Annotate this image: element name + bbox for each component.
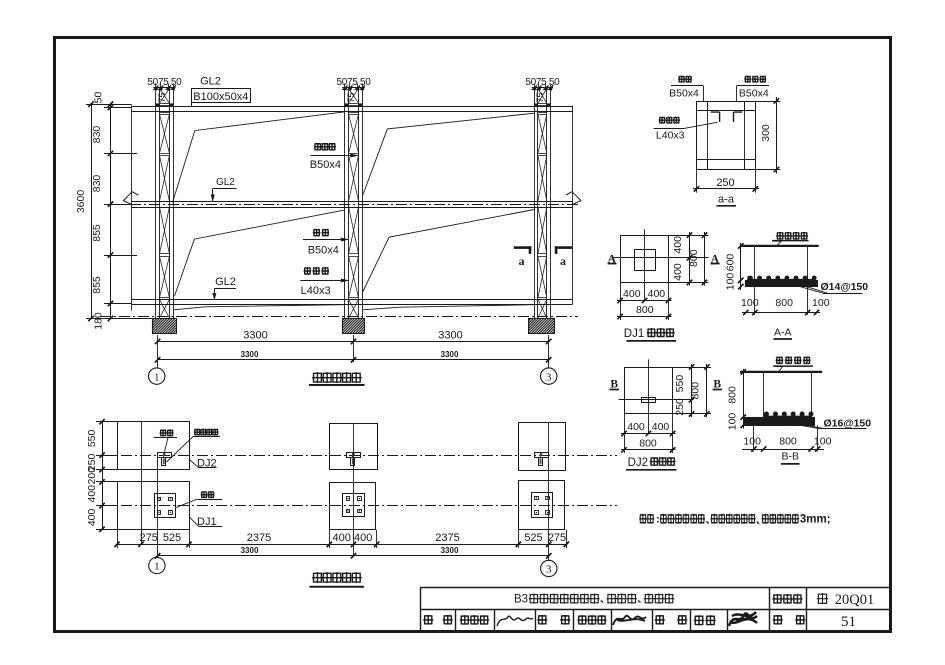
plan bottom dim row2 3300/3300	[158, 555, 549, 557]
middle rail centerline dash-dot	[111, 204, 578, 206]
title block shen he (review)	[423, 615, 433, 625]
elevation dim row2 3300 + 3300	[158, 359, 549, 361]
svg-text:75: 75	[157, 92, 167, 102]
diagonal brace panel bay1 lower	[175, 210, 345, 296]
title: structure plan (jiegou pingmiantu)	[312, 572, 323, 583]
svg-text:3300: 3300	[241, 546, 259, 555]
foundation block column 1 hatched	[153, 319, 177, 334]
A-A rebar label 14@150	[800, 287, 823, 294]
support bracket symbol at x=541.2	[535, 453, 549, 458]
column 3 connection plates at top rail	[534, 103, 538, 106]
A-A ground level label (dimian biaogao)	[776, 232, 784, 240]
DJ2 detail center lines	[648, 359, 650, 433]
svg-text:2375: 2375	[435, 532, 459, 544]
a-a label zhifugan B50x4	[744, 76, 751, 83]
B-B left dim 800/100	[743, 369, 745, 429]
B-B ground level label	[776, 357, 784, 365]
svg-text:B-B: B-B	[782, 451, 800, 463]
title block signature 3 stamp-like	[729, 612, 757, 626]
plan DJ2 footing square 3	[519, 423, 566, 471]
grid bubble 1 plan	[149, 557, 165, 573]
title block atlas number value yu 20Q01	[817, 593, 829, 604]
a-a chord corner squares	[697, 102, 708, 111]
svg-text:180: 180	[92, 312, 104, 330]
title block verticals row2	[455, 610, 457, 632]
svg-text:400: 400	[86, 485, 98, 503]
svg-text::: :	[656, 514, 660, 526]
foundation block column 3 hatched	[529, 319, 555, 334]
svg-text:100: 100	[725, 273, 737, 291]
svg-text:100: 100	[743, 436, 761, 448]
plan label zhujiao (column base)	[201, 491, 208, 498]
svg-text:800: 800	[688, 249, 700, 267]
svg-text:800: 800	[775, 297, 793, 309]
a-a label xiefugan L40x3	[659, 117, 666, 124]
DJ1 right dim 400/400	[668, 235, 708, 237]
svg-text:A-A: A-A	[774, 327, 792, 339]
svg-text:800: 800	[636, 304, 654, 316]
column base plate at x=531.5	[532, 493, 553, 518]
title block ye ci (page)	[773, 615, 783, 625]
diagonal brace panel bay2 upper	[362, 113, 534, 196]
DJ2 right dim 800	[706, 364, 708, 417]
title block tujihao (atlas number)	[772, 594, 782, 604]
A-A ground level triangle	[773, 241, 781, 245]
column base plate at x=154.0	[155, 494, 176, 518]
title block jiao dui (check)	[537, 615, 547, 625]
title block checker name zhang chaoyun	[577, 615, 587, 625]
A-A footing slab with rebar	[746, 281, 818, 287]
svg-text:250: 250	[716, 177, 734, 189]
svg-text:855: 855	[91, 276, 103, 294]
svg-text:100: 100	[741, 297, 759, 309]
plan vertical line square2 axis	[353, 424, 355, 557]
lattice steel column 1 B50x4 chords	[155, 89, 157, 319]
svg-text:GL2: GL2	[200, 76, 221, 88]
DJ1 right dim 800	[704, 232, 706, 286]
plan dash-dot axis through supports row	[102, 455, 617, 457]
column 2 top dim 50/75/50 ticks	[342, 87, 364, 89]
bottom strip line bay1	[174, 305, 345, 310]
column 2 connection plates at top rail	[345, 103, 349, 106]
svg-text:100: 100	[812, 297, 830, 309]
B-B footing slab with rebar	[744, 418, 815, 426]
B-B rebar label 16@150	[801, 425, 820, 428]
svg-text:525: 525	[524, 532, 542, 544]
B-B ground line	[740, 371, 822, 373]
svg-text:400: 400	[627, 421, 645, 433]
title block she ji (design)	[655, 615, 665, 625]
support bracket symbol at x=164.4	[158, 453, 172, 458]
a-a dim 250 bottom	[696, 170, 698, 193]
svg-text:550: 550	[674, 375, 686, 393]
diagonal brace panel bay2 lower	[362, 210, 534, 294]
A-A buried post lines	[754, 246, 756, 280]
right edge line of wall rails	[572, 106, 574, 305]
column 3 X lattice bracing	[538, 89, 547, 319]
DJ2 detail support plate rect	[642, 398, 656, 403]
column 3 battens	[538, 103, 547, 105]
svg-text:75: 75	[535, 92, 545, 102]
a-a diagonal web angles L40x3	[711, 112, 720, 122]
svg-text:20Q01: 20Q01	[835, 592, 874, 608]
svg-text:600: 600	[725, 254, 737, 272]
svg-text:B3: B3	[514, 594, 528, 606]
svg-text:830: 830	[91, 126, 103, 144]
DJ2 detail outer square	[625, 368, 673, 414]
label gangzhu B50x4 (steel column)	[313, 229, 321, 237]
svg-text:3mm;: 3mm;	[800, 514, 831, 526]
title block frame	[420, 588, 422, 632]
plan DJ1 footing square 3	[519, 481, 565, 530]
top rail GL2 B100x50x4	[132, 106, 573, 108]
svg-text:250: 250	[674, 398, 686, 416]
svg-text:Ø14@150: Ø14@150	[821, 281, 869, 293]
B-B bottom dims 100/800/100	[753, 425, 755, 451]
svg-text:5075 50: 5075 50	[147, 77, 182, 88]
svg-text:400: 400	[354, 532, 372, 544]
svg-text:800: 800	[727, 386, 739, 404]
drawing sheet frame	[55, 38, 891, 632]
plan bottom dim row1 275/525/2375/400/400/2375/525/275	[117, 544, 566, 546]
svg-text:3600: 3600	[75, 190, 87, 214]
svg-text:DJ2: DJ2	[628, 457, 648, 469]
svg-text:275: 275	[140, 532, 158, 544]
svg-text:B50x4: B50x4	[310, 159, 341, 171]
svg-text:a: a	[519, 254, 525, 268]
column 1 battens	[160, 103, 170, 105]
svg-text:DJ1: DJ1	[624, 328, 644, 340]
column 3 top dim 50/75/50 ticks	[532, 87, 553, 89]
diagonal brace panel bay1 upper	[173, 112, 345, 203]
grid bubble 3 elevation	[541, 368, 557, 384]
support bracket symbol at x=353.5	[347, 453, 361, 458]
svg-text:GL2: GL2	[216, 177, 235, 188]
title block signature 2 dark	[613, 616, 646, 625]
svg-text:2375: 2375	[247, 532, 271, 544]
svg-text:400: 400	[623, 288, 641, 300]
plan left dim chain 550/250/200/400/400	[102, 422, 104, 530]
DJ1 bottom dims 400/400 and 800	[620, 282, 622, 320]
svg-text:1: 1	[154, 371, 160, 383]
middle rail GL2	[132, 201, 573, 203]
svg-text:400: 400	[672, 263, 684, 281]
svg-text:525: 525	[163, 532, 181, 544]
label zhifugan B50x4 (straight web member)	[314, 143, 322, 151]
svg-text:B50x4: B50x4	[739, 87, 769, 99]
DJ2 bottom dims 400/400 and 800	[624, 414, 626, 453]
svg-text:L40x3: L40x3	[301, 285, 331, 297]
column 1 top dim 50/75/50 ticks	[153, 87, 175, 89]
plan DJ2 footing square 1	[118, 422, 190, 470]
svg-text:3300: 3300	[438, 330, 462, 342]
svg-text:1: 1	[154, 561, 160, 573]
column 1 X lattice bracing	[160, 89, 170, 319]
A-A ground line	[741, 245, 819, 247]
A-A bottom dims 100/800/100	[754, 287, 756, 315]
svg-text:800: 800	[690, 382, 702, 400]
plan vertical line square3 axis	[548, 422, 550, 561]
svg-text:GL2: GL2	[215, 276, 236, 288]
svg-text:275: 275	[548, 532, 566, 544]
svg-text:B100x50x4: B100x50x4	[193, 91, 248, 103]
DJ1 detail outer square	[621, 236, 669, 283]
column 2 battens	[349, 103, 359, 105]
svg-text:5075 50: 5075 50	[336, 77, 371, 88]
plan DJ1 footing square 2	[330, 483, 376, 530]
title block designer name cui peng	[694, 615, 705, 625]
svg-text:L40x3: L40x3	[656, 130, 685, 142]
DJ1 detail center lines	[644, 229, 646, 300]
svg-text:800: 800	[639, 437, 657, 449]
title block signature 1	[497, 616, 533, 626]
svg-text:100: 100	[727, 413, 739, 431]
svg-text:3: 3	[546, 371, 552, 383]
svg-text:3: 3	[546, 564, 552, 576]
svg-text:855: 855	[91, 224, 103, 242]
column 2 X lattice bracing	[349, 89, 359, 319]
left edge line of wall rails	[131, 106, 133, 311]
label xiefugan L40x3 (diagonal web member)	[304, 267, 312, 275]
bottom strip line bay2	[363, 305, 534, 310]
svg-text:550: 550	[86, 429, 98, 447]
DJ2 right dim 550/250	[673, 367, 711, 369]
svg-text:75: 75	[346, 92, 356, 102]
plan DJ2 footing square 2	[330, 424, 378, 470]
title block verticals row1	[769, 588, 771, 610]
grid bubble 3 plan	[541, 560, 557, 576]
svg-text:200: 200	[86, 467, 98, 485]
ground dash-dot line	[100, 316, 578, 318]
svg-text:400: 400	[86, 508, 98, 526]
title block reviewer name tang qiming	[460, 615, 470, 625]
B-B ground triangle	[774, 367, 782, 372]
foundation block column 2 hatched	[343, 319, 365, 334]
section mark a left	[514, 246, 532, 249]
svg-text:3300: 3300	[441, 350, 459, 359]
svg-text:Ø16@150: Ø16@150	[824, 418, 872, 430]
bottom rail GL2	[132, 299, 573, 301]
svg-text:a-a: a-a	[718, 194, 735, 206]
dim extension lines	[86, 104, 132, 106]
lattice steel column 2 B50x4 chords	[344, 89, 346, 319]
svg-text:800: 800	[779, 436, 797, 448]
plan label zhicheng (support)	[160, 430, 167, 437]
column 1 connection plates at top rail	[156, 103, 160, 106]
break mark left end of middle rail	[123, 192, 138, 205]
title: structure elevation (jiegou limiantu)	[312, 372, 323, 383]
svg-text:100: 100	[814, 436, 832, 448]
svg-text:400: 400	[648, 288, 666, 300]
svg-text:830: 830	[91, 175, 103, 193]
svg-text:5075 50: 5075 50	[525, 77, 560, 88]
section mark a right	[555, 246, 573, 249]
svg-text:B50x4: B50x4	[308, 244, 339, 256]
plan vertical lines square1	[141, 422, 143, 545]
lattice steel column 3 B50x4 chords	[534, 89, 536, 319]
svg-text:a: a	[560, 254, 566, 268]
section a-a outer tube	[697, 102, 756, 170]
svg-text:B50x4: B50x4	[669, 87, 699, 99]
column base plate at x=342.9	[343, 494, 365, 517]
left dim line segments 50/830/830/855/855/180	[110, 104, 112, 318]
svg-text:50: 50	[92, 92, 104, 104]
grid bubble 1 elevation	[149, 368, 165, 384]
plan label zhicheng zhujiao (support base)	[194, 429, 201, 436]
note: shuoming - welding note text	[639, 514, 647, 524]
A-A left dim 600/100	[740, 243, 742, 290]
svg-text:3300: 3300	[241, 350, 259, 359]
svg-text:300: 300	[760, 124, 772, 142]
a-a dim 300 right	[755, 101, 780, 103]
svg-text:400: 400	[333, 532, 351, 544]
break mark right end of middle rail	[566, 192, 581, 205]
plan DJ1 footing square 1	[118, 482, 190, 530]
a-a label gangzhu B50x4	[678, 76, 685, 83]
svg-text:400: 400	[652, 421, 670, 433]
svg-text:400: 400	[672, 236, 684, 254]
B-B buried post lines	[763, 372, 765, 417]
left dim line total 3600	[91, 104, 93, 318]
svg-text:51: 51	[841, 614, 856, 630]
elevation dim row 3300 + 3300	[157, 335, 159, 346]
a-a inner chord lines	[707, 101, 709, 170]
svg-text:3300: 3300	[243, 330, 267, 342]
plan dash-dot axis through column bases row	[102, 505, 617, 507]
svg-text:3300: 3300	[441, 546, 459, 555]
DJ1 detail inner square	[635, 250, 656, 271]
